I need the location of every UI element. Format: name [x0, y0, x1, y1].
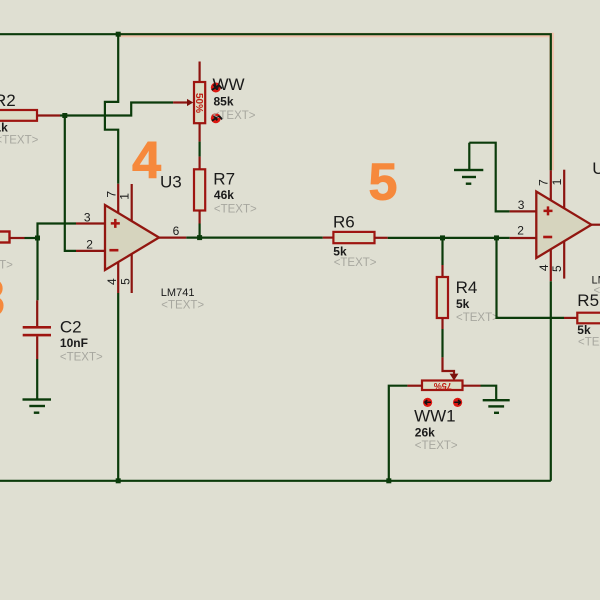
pin 2 stub U3: [76, 250, 105, 252]
svg-text:5k: 5k: [577, 323, 591, 337]
svg-text:<TEXT>: <TEXT>: [60, 352, 103, 364]
pin 1 stub U4: [563, 170, 565, 209]
svg-text:7: 7: [104, 191, 118, 198]
svg-text:<TEXT>: <TEXT>: [0, 135, 39, 147]
svg-text:4: 4: [132, 132, 161, 190]
wire top rail left segment: [0, 33, 118, 35]
svg-text:26k: 26k: [415, 426, 435, 440]
node junction bottom left: [116, 478, 121, 483]
wire ground to U4 pin 3: [469, 143, 509, 212]
resistor R5 (cut at right edge): [564, 317, 577, 319]
wire bottom rail: [0, 480, 551, 482]
svg-text:<TEXT>: <TEXT>: [578, 336, 600, 348]
potentiometer WW1: [422, 381, 463, 391]
pin 1 stub U3: [131, 184, 133, 221]
wire WW to R7: [199, 123, 201, 141]
resistor R3 (cut at left edge): [0, 232, 10, 243]
pin 3 stub U3: [76, 222, 105, 224]
node junction output: [197, 235, 202, 240]
wire R2 to junction: [60, 114, 65, 116]
capacitor C2: [36, 300, 38, 326]
svg-text:7: 7: [537, 179, 551, 186]
pin 6 stub U3: [159, 237, 186, 239]
wire U4 pin4 down to bottom rail: [550, 281, 552, 481]
svg-text:1k: 1k: [0, 121, 8, 135]
wire node down to R4: [441, 238, 443, 265]
ground top right: [468, 143, 470, 169]
pin 3 stub U4: [510, 210, 537, 212]
svg-text:WW1: WW1: [414, 406, 456, 425]
wire R6 to node: [388, 237, 443, 239]
svg-text:R6: R6: [333, 213, 355, 232]
svg-text:10nF: 10nF: [60, 336, 88, 350]
svg-text:5: 5: [118, 278, 132, 285]
node junction bottom WW1: [386, 478, 391, 483]
wire supply jog to U3 pin 7: [105, 34, 118, 184]
svg-text:1: 1: [550, 178, 564, 185]
ground C2: [23, 398, 52, 400]
pin 2 stub U4: [510, 237, 537, 239]
pin 5 stub U4: [563, 241, 565, 278]
ground WW1: [483, 399, 510, 401]
wire WW1 left to bottom rail: [389, 386, 408, 481]
svg-text:R2: R2: [0, 91, 16, 110]
svg-text:R5: R5: [577, 291, 599, 310]
svg-text:<TEXT>: <TEXT>: [456, 312, 499, 324]
wire WW1 right to ground: [481, 386, 497, 399]
potentiometer WW: [199, 62, 201, 83]
wire junction down to U3 pin 2: [65, 116, 76, 251]
wire top rail right with halo to U4 pin7: [119, 35, 552, 170]
svg-text:2: 2: [517, 224, 524, 238]
svg-text:R7: R7: [213, 170, 235, 189]
wire R3 to junction: [25, 237, 38, 239]
svg-text:50%: 50%: [193, 93, 204, 113]
pin 7 stub U3: [117, 184, 119, 213]
svg-text:75%: 75%: [434, 381, 452, 391]
svg-text:5: 5: [550, 265, 564, 272]
wire C2 to ground: [36, 359, 38, 399]
resistor R6: [323, 237, 334, 239]
wire node to node2: [443, 237, 497, 239]
svg-text:4: 4: [537, 264, 551, 271]
wire R7 to output node: [199, 224, 201, 238]
op-amp U4: [536, 192, 591, 259]
wire R4 to WW1 wiper: [441, 329, 443, 357]
pin 4 stub U4: [550, 249, 552, 281]
wire U3 pin4 down to bottom rail: [117, 293, 119, 481]
resistor R2: [0, 110, 37, 121]
node junction R5: [494, 235, 499, 240]
svg-text:3: 3: [84, 210, 91, 224]
svg-text:C2: C2: [60, 317, 82, 336]
svg-text:U4: U4: [592, 159, 600, 178]
resistor R4: [441, 265, 443, 277]
op-amp U3: [105, 205, 159, 270]
svg-text:3: 3: [518, 198, 525, 212]
wire junction up to U3 pin 3: [38, 224, 77, 239]
svg-text:<TEXT>: <TEXT>: [161, 300, 204, 312]
node junction R3: [35, 236, 40, 241]
svg-text:WW: WW: [213, 75, 245, 94]
resistor R7: [199, 157, 201, 170]
svg-text:<TEXT>: <TEXT>: [213, 110, 256, 122]
pin 4 stub U3: [117, 262, 119, 293]
node junction R2: [62, 113, 67, 118]
svg-text:5k: 5k: [456, 297, 470, 311]
pin 6 output stub U4: [591, 224, 600, 226]
node junction R4: [440, 235, 445, 240]
svg-text:1: 1: [117, 193, 131, 200]
svg-text:85k: 85k: [214, 95, 234, 109]
svg-text:LM741: LM741: [161, 287, 195, 299]
node junction top rail: [116, 32, 121, 37]
wire node2 down to R5: [497, 238, 565, 318]
pin 5 stub U3: [131, 254, 133, 293]
svg-text:<TEXT>: <TEXT>: [214, 203, 257, 215]
svg-text:3: 3: [0, 270, 5, 328]
svg-text:<TEXT>: <TEXT>: [415, 440, 458, 452]
pin 7 stub U4: [550, 170, 552, 200]
wire U3 output to R6: [186, 237, 322, 239]
svg-text:46k: 46k: [214, 188, 234, 202]
svg-text:6: 6: [173, 224, 180, 238]
wire junction down to C2: [36, 238, 38, 300]
svg-text:U3: U3: [160, 172, 182, 191]
svg-text:4: 4: [105, 278, 119, 285]
wire node2 to U4 pin 2: [497, 237, 510, 239]
svg-text:2: 2: [86, 238, 93, 252]
svg-text:<TEXT>: <TEXT>: [334, 257, 377, 269]
svg-text:R4: R4: [456, 278, 478, 297]
svg-text:5: 5: [369, 154, 398, 212]
wire junction to wiper of WW: [65, 103, 173, 116]
